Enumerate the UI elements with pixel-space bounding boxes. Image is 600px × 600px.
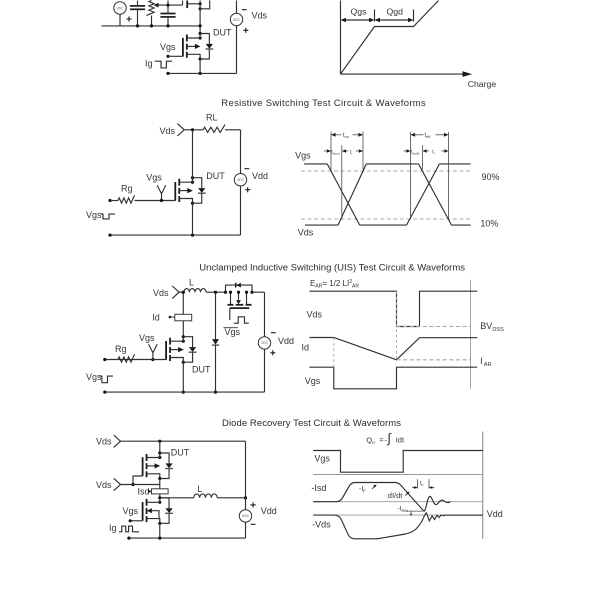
svg-text:Ig: Ig — [145, 59, 153, 69]
svg-text:tf​: tf​ — [432, 149, 434, 155]
svg-text:Id: Id — [152, 312, 160, 322]
svg-text:DUT: DUT — [213, 27, 232, 37]
svg-text:Vgs: Vgs — [139, 333, 155, 343]
svg-text:Qgd: Qgd — [387, 7, 404, 17]
svg-text:Vdd: Vdd — [261, 506, 277, 516]
svg-text:Vds: Vds — [307, 309, 323, 319]
svg-text:VDC: VDC — [233, 18, 241, 22]
svg-text:Vgs: Vgs — [86, 210, 102, 220]
svg-text:90%: 90% — [482, 172, 500, 182]
svg-text:Vds: Vds — [153, 288, 169, 298]
svg-text:Unclamped Inductive Switching: Unclamped Inductive Switching (UIS) Test… — [199, 263, 465, 274]
svg-text:Vgs: Vgs — [295, 150, 311, 160]
svg-text:Vgs: Vgs — [305, 376, 321, 386]
svg-text:VDC: VDC — [261, 341, 269, 345]
svg-text:-Isd: -Isd — [311, 483, 326, 493]
svg-text:Rg: Rg — [115, 344, 127, 354]
svg-text:Rg: Rg — [121, 183, 133, 193]
svg-text:10%: 10% — [480, 219, 498, 229]
svg-text:RL: RL — [206, 112, 218, 122]
svg-text:Vgs: Vgs — [314, 454, 330, 464]
svg-text:Id: Id — [302, 343, 310, 353]
svg-text:-Vds: -Vds — [312, 520, 331, 530]
svg-text:dI/dt: dI/dt — [388, 491, 404, 500]
svg-text:DUT: DUT — [192, 365, 211, 375]
svg-text:Vgs: Vgs — [146, 172, 162, 182]
svg-text:VDC: VDC — [242, 514, 250, 518]
svg-text:DUT: DUT — [171, 447, 190, 457]
svg-text:Resistive Switching Test Circu: Resistive Switching Test Circuit & Wavef… — [221, 98, 426, 109]
svg-text:Charge: Charge — [468, 79, 497, 89]
svg-text:Vdd: Vdd — [487, 509, 503, 519]
svg-text:Vds: Vds — [96, 437, 112, 447]
svg-text:DUT: DUT — [206, 171, 225, 181]
svg-text:Idt: Idt — [396, 435, 405, 444]
svg-text:Isd: Isd — [138, 486, 150, 496]
svg-text:L: L — [197, 484, 202, 494]
svg-text:Diode Recovery Test Circuit &: Diode Recovery Test Circuit & Waveforms — [222, 418, 401, 429]
svg-text:Vgs: Vgs — [123, 506, 139, 516]
svg-text:Qgs: Qgs — [351, 7, 368, 17]
svg-text:Vds: Vds — [298, 228, 314, 238]
svg-text:Vgs: Vgs — [160, 42, 176, 52]
svg-text:VDC: VDC — [237, 178, 245, 182]
svg-text:Vdd: Vdd — [278, 336, 294, 346]
svg-text:Vdd: Vdd — [252, 171, 268, 181]
svg-text:Vds: Vds — [252, 11, 268, 21]
svg-text:Ig: Ig — [109, 523, 117, 533]
svg-text:Vds: Vds — [96, 480, 112, 490]
svg-text:Vgs: Vgs — [86, 372, 102, 382]
svg-text:Vgs: Vgs — [225, 327, 241, 337]
svg-text:VDC: VDC — [116, 6, 124, 10]
svg-text:Qrr​: Qrr​ — [366, 435, 375, 445]
svg-text:L: L — [189, 278, 194, 288]
svg-text:Vds: Vds — [160, 126, 176, 136]
